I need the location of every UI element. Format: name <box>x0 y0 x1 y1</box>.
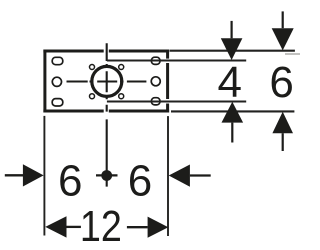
extension line bottom of dim 6 right (y=111.4) <box>171 110 294 112</box>
vertical centerline (dash-dot) <box>106 43 108 186</box>
dim 12 left arrow <box>45 216 81 237</box>
small circle bottom-left <box>90 94 95 99</box>
dim 4 up arrow <box>222 102 244 143</box>
dim 6-6 right arrow <box>169 165 211 187</box>
small circle bottom-right <box>119 94 124 99</box>
slot bottom-left <box>52 99 63 106</box>
plate bottom edge (gap at centerline) <box>43 110 169 113</box>
dim 6 up arrow <box>272 112 293 151</box>
small circle top-left <box>90 65 95 70</box>
big central circle <box>92 66 122 96</box>
extension line top of dim 4 (y=60.5) <box>107 59 246 61</box>
left extension line bottom dims <box>43 116 45 236</box>
center mark horizontal tick <box>96 174 118 176</box>
svg-text:6: 6 <box>128 157 152 206</box>
svg-text:6: 6 <box>269 58 293 107</box>
faint stray line right edge <box>285 53 300 55</box>
plate left edge <box>43 50 46 113</box>
left column holes <box>52 57 160 106</box>
dim 4 down arrow <box>221 21 243 60</box>
plate top edge (gap at centerline) <box>43 50 169 53</box>
extension line bottom of dim 4 (y=101.5) <box>107 100 246 102</box>
horizontal centerline (dash-dot) <box>67 81 147 83</box>
slot bottom-right <box>151 98 160 105</box>
mounting plate outline <box>43 50 169 113</box>
slot top-right <box>151 57 160 64</box>
svg-text:12: 12 <box>80 202 122 250</box>
svg-text:6: 6 <box>58 157 82 206</box>
dim 6-6 left arrow <box>5 164 44 186</box>
hole circle mid-right <box>151 77 160 86</box>
dim 12 right arrow <box>127 217 168 238</box>
dim 6 down arrow <box>272 11 294 50</box>
small corner circles around big circle <box>90 65 124 99</box>
small circle top-right <box>119 65 124 70</box>
hole circle mid-left <box>52 77 61 86</box>
svg-text:4: 4 <box>218 58 242 107</box>
right extension line bottom dims <box>167 116 169 236</box>
plate right edge (gaps at extension lines) <box>166 50 169 113</box>
center mark dot <box>101 170 112 181</box>
slot top-left <box>52 57 63 64</box>
extension line top of dim 6 right (y=50.7) <box>170 50 295 52</box>
